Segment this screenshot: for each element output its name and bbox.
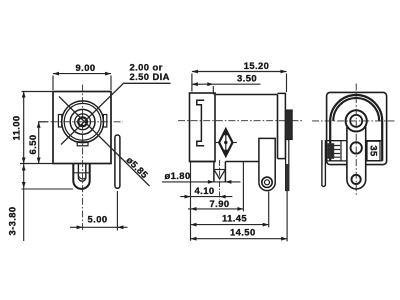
body bottom right [225,161,259,163]
front pin small arc [79,177,86,179]
dim 5.00 line [70,226,128,228]
main body top [215,94,278,96]
dim 15.20 arrows [192,70,287,74]
dim dia 1.80 line [162,181,241,183]
lever capsule [347,127,366,189]
spring contact diamond [219,129,232,156]
front pin chord [73,172,89,174]
dim 9.00 line [53,73,111,75]
left bent pin [322,140,326,187]
svg-text:4.10: 4.10 [195,185,215,196]
middle circle [351,142,362,153]
dim 6.50 top tick [39,121,48,123]
svg-text:9.00: 9.00 [76,62,96,73]
bezel bracket profile [197,100,204,145]
horizontal centerline rear view [312,120,395,122]
vertical centerline front view [82,85,84,231]
pin bottom extension line [22,188,74,190]
dim 7.90 line [188,208,243,210]
vertical centerline rear view [355,84,357,197]
diamond vertical arrow [225,133,227,152]
left tab hatched [327,141,341,161]
rear pin hole inner [265,180,270,185]
barrel circle [70,109,95,134]
dim 4.10 line [180,196,232,198]
dim 6.50 arrows [37,122,41,164]
compartment line left [328,140,347,142]
side terminal pin front view [115,135,120,188]
dim 3.50 arrows [192,82,213,86]
dim 3-3.80 arrows [22,165,26,189]
dim 9.00 ext lines [52,76,54,91]
inner bottom line right [366,160,383,162]
inner bottom line left [330,160,347,162]
rear terminal tail dark part [286,164,289,191]
horizontal centerline side view [178,120,303,122]
dim 11.45 line [191,224,269,226]
dim 7.90 arrows [191,207,244,211]
front pin inner U [78,164,85,182]
body bottom left [190,161,214,163]
center pin circle [78,117,87,126]
svg-text:ø1.80: ø1.80 [165,170,191,181]
body outline front view [53,92,111,164]
shared left ext line below side view [190,162,192,241]
rear terminal hatched plate [285,110,292,140]
svg-text:5.00: 5.00 [88,214,108,225]
diamond center dot [224,141,227,144]
svg-text:35: 35 [369,145,380,156]
leader 2.00/2.50 DIA [61,83,171,144]
svg-text:15.20: 15.20 [244,60,270,71]
dim 14.50 arrows [191,237,288,241]
dim 5.00 arrows [77,225,124,229]
dim 11.00 line [23,92,25,164]
body rear inner wall [277,95,279,159]
housing outline [327,92,387,164]
compartment line right [366,140,383,142]
dim 11.00 arrows [22,92,26,164]
front pin chord [214,169,226,171]
dim 9.00 arrows [53,72,111,76]
big circle outer [346,110,367,131]
svg-text:7.90: 7.90 [210,198,230,209]
bottom circle [352,175,361,184]
right notch tab [103,115,106,128]
shield arch inner [333,98,379,121]
dim 7.90 ext line [242,162,244,212]
dim 14.50 ext line [286,191,288,242]
rear wall outer [278,93,286,158]
front flange [190,93,216,162]
svg-text:11.00: 11.00 [11,115,22,140]
dim 6.50 line [38,122,40,164]
tab dark fill [328,143,335,159]
dim 3.50 ext line [212,86,214,95]
left notch tab [58,115,61,128]
top edge extension line to left [22,91,54,93]
dim 5.00 ext line [116,191,118,231]
leader dia 5.85 [59,97,150,187]
dim 15.20 ext lines [191,74,193,92]
bezel outer circle [62,101,104,143]
diamond side ticks [215,142,219,144]
svg-text:3-3.80: 3-3.80 [7,206,18,235]
horizontal centerline front view [38,121,123,123]
inner sleeve circle [75,114,91,130]
shield arch outer with legs [330,95,382,161]
svg-text:6.50: 6.50 [27,135,38,155]
front pin V notch [214,170,224,179]
dim 14.50 line [191,238,288,240]
svg-text:14.50: 14.50 [230,227,256,238]
bottom notch tab [77,142,88,146]
dim 3-3.80 line [23,164,25,242]
dim 11.45 arrows [191,223,269,227]
rear terminal tail [286,140,289,191]
rear pin hole outer [262,177,272,187]
label 35 box [367,141,380,160]
dim 15.20 line [192,71,287,73]
dim 11.45 ext line [268,192,270,228]
dim 4.10 arrows [185,195,226,199]
front pin centerline [219,160,221,200]
bezel second circle [64,103,101,140]
svg-text:2.50 DIA: 2.50 DIA [130,71,170,82]
front pin outer U [73,164,89,189]
tab hatch lines [328,146,341,158]
svg-text:11.45: 11.45 [222,213,247,224]
bottom edge extension line to left [20,163,53,165]
dim dia 1.80 arrows [208,180,232,184]
svg-text:3.50: 3.50 [237,72,257,83]
big circle inner [350,115,362,127]
rear pin capsule [259,138,275,190]
front pin side view [214,162,226,182]
dim 3.50 line [192,83,261,85]
